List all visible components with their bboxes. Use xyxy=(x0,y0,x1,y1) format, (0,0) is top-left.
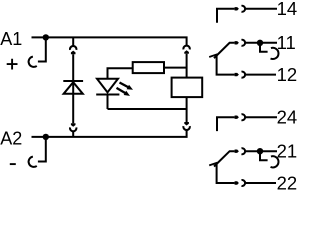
wire: diode branch vertical xyxy=(72,54,74,123)
node: junction on line 21 xyxy=(257,148,263,154)
wire: line 24 to label xyxy=(245,116,277,118)
svg-text:11: 11 xyxy=(277,32,296,53)
plug connector on line 24 xyxy=(235,116,239,119)
plug connector on line 21 xyxy=(235,150,239,153)
svg-text:21: 21 xyxy=(277,141,298,162)
svg-text:22: 22 xyxy=(277,172,298,193)
clamp terminal 21 (cage clamp symbol) xyxy=(271,156,279,167)
wire: A2 drop to clamp xyxy=(38,137,46,162)
svg-text:A2: A2 xyxy=(0,129,22,149)
movable contact tick xyxy=(209,163,217,166)
clamp terminal 11 (cage clamp symbol) xyxy=(271,48,279,59)
wire: line 11 to label xyxy=(245,42,277,44)
plug connector on line 11 xyxy=(235,41,239,44)
wire: contact 24 left stub xyxy=(217,117,235,131)
wire: line 14 to label xyxy=(245,8,277,10)
plug connector on line 14 xyxy=(235,7,239,10)
plug connector on diode branch (bottom) xyxy=(71,123,76,127)
svg-text:24: 24 xyxy=(277,107,298,128)
wire: 21 drop to clamp xyxy=(260,151,268,160)
svg-text:A1: A1 xyxy=(0,29,22,49)
node: junction on line 11 xyxy=(257,40,263,46)
relay module schematic xyxy=(0,0,300,193)
wire: LED bottom to coil-bottom node xyxy=(108,108,187,110)
wire: line 22 riser xyxy=(217,164,235,183)
wire: line 22 to label xyxy=(245,182,276,184)
plug connector on line 12 xyxy=(235,73,239,76)
movable contact tick xyxy=(209,54,217,57)
node: A1 junction xyxy=(43,34,49,40)
wire: contact 14 left stub xyxy=(217,9,235,23)
diode D1 (flyback) cathode bar xyxy=(63,80,83,82)
wire: connector down to coil xyxy=(186,54,188,78)
wire: 11 drop to clamp xyxy=(260,43,268,52)
diode D1 triangle xyxy=(64,82,83,94)
plug connector on coil branch (bottom) xyxy=(184,122,189,126)
plug connector on diode branch (top) xyxy=(70,46,76,50)
svg-text:12: 12 xyxy=(277,64,298,85)
resistor R1 xyxy=(133,62,164,73)
plug connector on line 22 xyxy=(235,181,239,184)
LED D2 cathode bar xyxy=(96,94,119,96)
wire: line 12 to label xyxy=(245,74,276,76)
wire: line 12 riser xyxy=(217,55,235,74)
svg-text:14: 14 xyxy=(277,0,298,19)
wire: line 21 to label xyxy=(245,150,277,152)
LED emission arrows xyxy=(120,83,129,88)
wire: A2 bottom rail xyxy=(32,130,187,137)
plus sign for A1 polarity xyxy=(7,59,18,70)
wire: LED anode up and over to resistor xyxy=(108,68,133,78)
clamp terminal A1 (cage clamp symbol) xyxy=(29,57,37,67)
wire: LED cathode down xyxy=(107,95,109,110)
LED D2 triangle xyxy=(97,79,118,93)
minus sign for A2 polarity xyxy=(10,163,16,165)
wire: stub to bottom rail xyxy=(72,131,74,137)
wire: A1 drop to clamp xyxy=(38,37,46,61)
contact arm (common 21) xyxy=(214,151,235,166)
wire: stub from top rail to connector xyxy=(72,37,74,46)
relay coil K1 xyxy=(172,78,203,98)
plug connector on coil branch (top) xyxy=(183,46,189,50)
wire: coil bottom down xyxy=(186,97,188,122)
node: A2 junction xyxy=(43,134,49,140)
wire: A1 top rail xyxy=(32,37,187,45)
contact arm (common 11) xyxy=(214,43,235,58)
clamp terminal A2 (cage clamp symbol) xyxy=(29,157,37,167)
wire: resistor to coil-top node xyxy=(164,67,187,69)
